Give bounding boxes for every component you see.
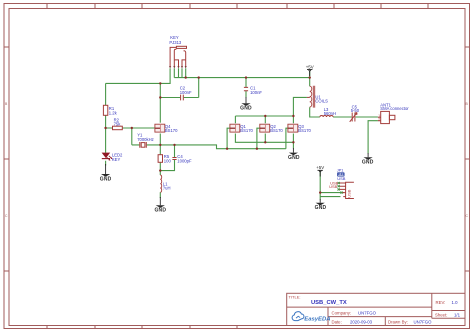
svg-text:1000pF: 1000pF (177, 159, 192, 164)
svg-text:1/1: 1/1 (454, 312, 461, 317)
svg-text:SMA connector: SMA connector (380, 106, 409, 111)
svg-text:560nH: 560nH (324, 111, 336, 116)
svg-text:PJ313: PJ313 (169, 40, 182, 45)
svg-text:100nF: 100nF (250, 90, 262, 95)
svg-text:UN7FGO: UN7FGO (414, 320, 433, 325)
svg-text:USB: USB (329, 184, 338, 189)
svg-text:GND: GND (154, 208, 166, 214)
svg-text:2: 2 (378, 117, 380, 121)
svg-text:Sheet:: Sheet: (435, 312, 447, 317)
svg-text:USB_CW_TX: USB_CW_TX (311, 300, 347, 306)
svg-text:GND: GND (100, 176, 112, 182)
svg-text:GND: GND (315, 205, 327, 211)
svg-text:+5V: +5V (306, 64, 314, 69)
svg-text:BS170: BS170 (270, 128, 283, 133)
svg-text:GND: GND (240, 106, 252, 112)
svg-text:2020-09-03: 2020-09-03 (350, 320, 373, 325)
svg-text:Company:: Company: (332, 310, 352, 315)
svg-text:1.0: 1.0 (452, 300, 459, 305)
svg-text:USB: USB (347, 189, 352, 198)
svg-text:EasyEDA: EasyEDA (304, 317, 330, 323)
svg-text:7000kHz: 7000kHz (137, 137, 154, 142)
svg-text:TITLE:: TITLE: (289, 295, 301, 300)
svg-text:USB: USB (337, 176, 346, 181)
svg-text:+5V: +5V (316, 165, 324, 170)
svg-text:Date:: Date: (332, 320, 342, 325)
svg-text:JP1: JP1 (337, 168, 344, 172)
svg-text:KEY: KEY (112, 157, 121, 162)
svg-text:GND: GND (288, 155, 300, 161)
svg-text:1.2k: 1.2k (109, 111, 118, 116)
svg-text:BS170: BS170 (165, 128, 178, 133)
svg-text:BS170: BS170 (240, 128, 253, 133)
svg-text:100: 100 (164, 159, 172, 164)
svg-text:5-50: 5-50 (351, 108, 360, 113)
svg-text:100nF: 100nF (180, 90, 192, 95)
svg-text:UN7FGO: UN7FGO (358, 310, 377, 315)
svg-text:?uH: ?uH (163, 186, 171, 191)
svg-text:75k: 75k (114, 121, 122, 126)
svg-text:REV:: REV: (436, 300, 446, 305)
svg-text:GND: GND (362, 160, 374, 166)
svg-text:Drawn By:: Drawn By: (388, 320, 408, 325)
svg-text:BS170: BS170 (298, 128, 311, 133)
svg-text:COILS: COILS (315, 99, 328, 104)
